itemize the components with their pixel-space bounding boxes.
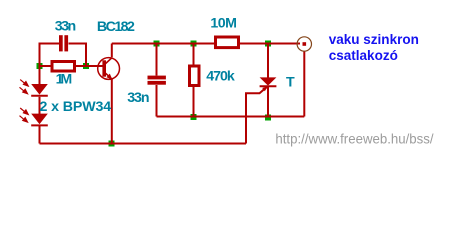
wire D2 to bottom rail: [39, 126, 41, 144]
connector X1 pin square: [303, 42, 307, 46]
wire top rail left: [112, 43, 214, 45]
svg-text:1M: 1M: [56, 72, 73, 88]
transistor Q1 base bar: [102, 60, 106, 76]
svg-text:http://www.freeweb.hu/bss/: http://www.freeweb.hu/bss/: [275, 131, 433, 147]
thyristor T1 triangle: [260, 77, 277, 85]
photodiode D2 cathode bar: [31, 124, 48, 126]
light arrow 1 for D2: [20, 108, 28, 114]
resistor R2 10M body: [216, 37, 239, 48]
wire D1 to D2: [39, 97, 41, 114]
svg-text:csatlakozó: csatlakozó: [329, 47, 398, 63]
transistor Q1 BC182 circle: [98, 58, 120, 80]
wire T1 cathode: [267, 86, 269, 117]
svg-text:2 x BPW34: 2 x BPW34: [40, 99, 112, 115]
svg-text:T: T: [286, 74, 295, 90]
svg-text:vaku szinkron: vaku szinkron: [329, 31, 419, 47]
wire T1 gate: [246, 86, 268, 143]
light arrow 2 for D1: [20, 87, 28, 93]
wire node A down to D1: [39, 66, 41, 85]
photodiode D1 cathode bar: [31, 95, 48, 97]
junction node bottom rail emitter: [109, 141, 115, 147]
wire connector drop: [303, 51, 305, 116]
wire top rail right: [240, 43, 300, 45]
light arrow 1 for D1: [20, 80, 28, 86]
connector X1 circle: [297, 37, 311, 51]
junction node top rail 2: [191, 41, 197, 47]
capacitor C1 33n plate left: [59, 35, 63, 51]
junction node top rail 1: [154, 41, 160, 47]
svg-text:10M: 10M: [210, 16, 237, 32]
junction node top rail 3: [265, 41, 271, 47]
wire middle rail: [157, 116, 305, 118]
wire C2 bottom drop: [156, 85, 158, 117]
thyristor T1 cathode bar: [260, 85, 277, 87]
wire C2 top drop: [156, 44, 158, 76]
wire T1 anode: [267, 44, 269, 78]
junction node middle rail T1: [265, 115, 271, 121]
wire left loop top-left: [40, 44, 60, 67]
transistor Q1 emitter arrow: [106, 74, 112, 80]
capacitor C1 33n plate right: [64, 35, 68, 51]
wire bottom rail: [40, 143, 247, 145]
capacitor C2 33n plate bottom: [148, 81, 166, 85]
transistor Q1 collector diagonal: [106, 58, 113, 64]
wire left loop top-right: [69, 44, 87, 67]
svg-text:33n: 33n: [127, 90, 149, 106]
svg-text:470k: 470k: [206, 68, 235, 84]
resistor R3 470k body: [190, 66, 200, 86]
photodiode D1 triangle: [31, 84, 48, 95]
thyristor T1 gate arrow: [262, 86, 268, 91]
wire R3 bottom: [193, 87, 195, 117]
junction node B right: [83, 63, 89, 69]
wire node A to R1: [40, 65, 51, 67]
capacitor C2 33n plate top: [148, 76, 166, 80]
svg-text:BC182: BC182: [97, 19, 135, 35]
wire Q1 collector up: [111, 44, 113, 58]
wire Q1 emitter down: [111, 79, 113, 144]
transistor Q1 emitter diagonal: [106, 73, 113, 79]
resistor R1 1M body: [52, 62, 75, 72]
wire R1 to Q1 base: [76, 65, 103, 67]
junction node middle rail R3: [191, 114, 197, 120]
wire R3 top: [193, 44, 195, 65]
photodiode D2 triangle: [31, 114, 48, 125]
light arrow 2 for D2: [20, 116, 28, 122]
junction node A left: [37, 63, 43, 69]
svg-text:33n: 33n: [55, 19, 76, 35]
